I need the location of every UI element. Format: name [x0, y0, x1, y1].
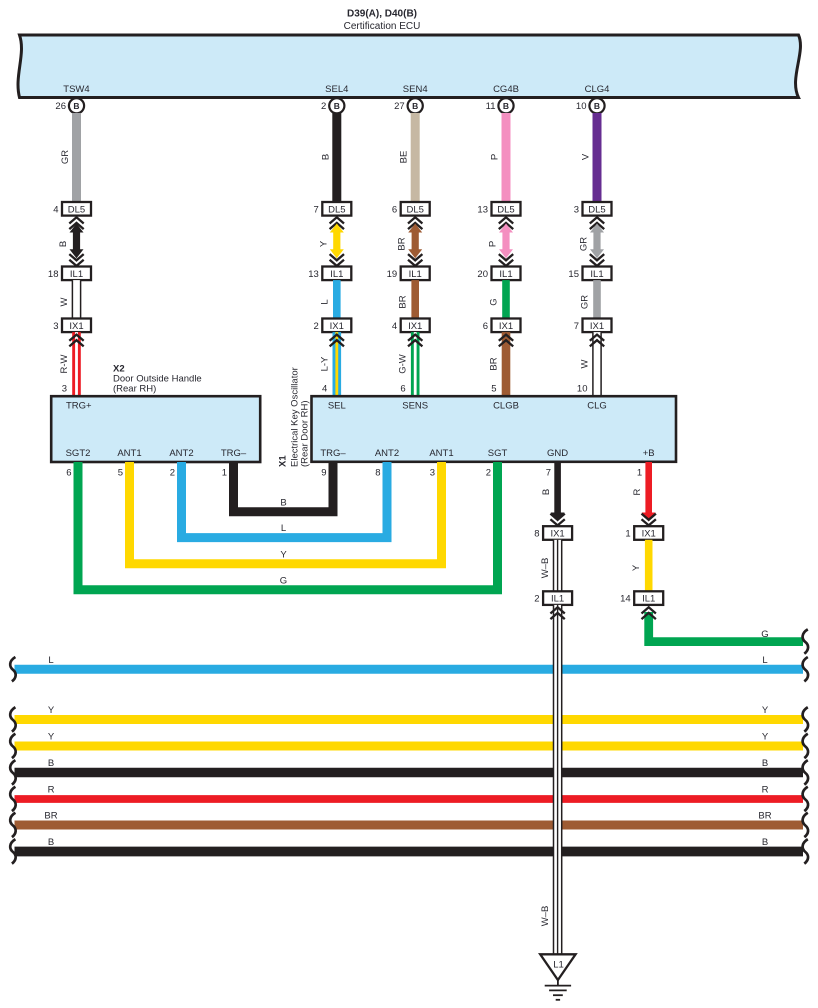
- connector DL5 pin 6: [401, 202, 430, 216]
- wire BR from IL1 to IX1: [411, 280, 419, 318]
- svg-text:IL1: IL1: [499, 269, 512, 280]
- wire GR from TSW4 to DL5: [72, 113, 81, 202]
- wire Y bus: [15, 715, 804, 724]
- svg-text:B: B: [73, 101, 79, 111]
- wire G from IL1 14 to right edge: [649, 612, 803, 642]
- svg-text:20: 20: [477, 269, 488, 280]
- connector IL1 pin 20: [492, 267, 521, 281]
- svg-text:2: 2: [170, 468, 175, 479]
- svg-text:26: 26: [55, 101, 66, 112]
- connector DL5 pin 7: [322, 202, 351, 216]
- connector DL5 pin 3: [583, 202, 612, 216]
- svg-text:1: 1: [637, 468, 642, 479]
- wire L loop from X2 to X1: [182, 462, 388, 538]
- svg-text:G: G: [280, 575, 287, 586]
- pin 10 (B) of ECU: [589, 98, 604, 113]
- svg-text:G: G: [489, 298, 500, 305]
- svg-text:CG4B: CG4B: [493, 84, 519, 95]
- svg-text:B: B: [594, 101, 600, 111]
- wire P from DL5 to IL1 (in-line connector arrows): [499, 217, 513, 223]
- svg-text:+B: +B: [643, 448, 655, 459]
- svg-text:GND: GND: [547, 448, 568, 459]
- wire B from X1 GND to IX1: [554, 462, 561, 513]
- svg-text:2: 2: [321, 101, 326, 112]
- wire L-Y from IX1 down to component pin 4: [333, 332, 342, 396]
- svg-text:1: 1: [222, 468, 227, 479]
- wire Y loop from X2 to X1: [130, 462, 442, 564]
- svg-text:B: B: [334, 101, 340, 111]
- svg-text:SENS: SENS: [402, 401, 428, 412]
- wire BR from DL5 to IL1 (in-line connector arrows): [408, 217, 422, 223]
- svg-text:B: B: [762, 837, 768, 848]
- svg-text:B: B: [762, 758, 768, 769]
- svg-text:L: L: [48, 655, 53, 666]
- svg-text:G-W: G-W: [398, 354, 409, 374]
- wire B from SEL4 to DL5: [332, 113, 341, 202]
- svg-text:3: 3: [53, 321, 58, 332]
- pin 2 (B) of ECU: [329, 98, 344, 113]
- svg-text:1: 1: [625, 529, 630, 540]
- svg-text:TSW4: TSW4: [63, 84, 89, 95]
- svg-text:2: 2: [534, 594, 539, 605]
- component X1 Electrical Key Oscillator (Rear Door RH): [312, 396, 677, 462]
- svg-text:Y: Y: [48, 705, 55, 716]
- pin 26 (B) of ECU: [69, 98, 84, 113]
- wire BE from SEN4 to DL5: [411, 113, 420, 202]
- svg-text:CLG4: CLG4: [585, 84, 610, 95]
- svg-text:GR: GR: [580, 295, 591, 309]
- svg-text:IL1: IL1: [330, 269, 343, 280]
- svg-text:SEL4: SEL4: [325, 84, 348, 95]
- svg-text:R-W: R-W: [59, 354, 70, 373]
- svg-text:11: 11: [486, 101, 496, 112]
- wire W-B from IX1 to IL1: [554, 540, 562, 592]
- svg-text:Y: Y: [631, 564, 642, 571]
- wire L bus: [15, 665, 804, 674]
- svg-text:2: 2: [486, 468, 491, 479]
- svg-text:IX1: IX1: [642, 529, 656, 540]
- connector IX1 pin 2: [322, 319, 351, 333]
- svg-text:6: 6: [66, 468, 71, 479]
- svg-text:BR: BR: [397, 237, 408, 250]
- svg-text:V: V: [581, 153, 592, 160]
- wire B bus: [15, 847, 804, 857]
- svg-text:B: B: [541, 489, 552, 495]
- svg-text:3: 3: [574, 204, 579, 215]
- wire R bus: [15, 795, 804, 803]
- svg-text:GR: GR: [579, 237, 590, 251]
- svg-text:2: 2: [314, 321, 319, 332]
- svg-text:B: B: [48, 837, 54, 848]
- wire B from DL5 to IL1 (in-line connector arrows): [69, 217, 83, 223]
- svg-text:DL5: DL5: [406, 204, 423, 215]
- svg-text:Y: Y: [48, 732, 55, 743]
- svg-text:13: 13: [477, 204, 488, 215]
- svg-text:SGT: SGT: [488, 448, 508, 459]
- svg-text:R: R: [48, 785, 55, 796]
- svg-text:B: B: [320, 154, 331, 160]
- svg-text:BR: BR: [398, 295, 409, 308]
- svg-text:B: B: [58, 241, 69, 247]
- connector IX1 pin 6: [492, 319, 521, 333]
- svg-text:3: 3: [430, 468, 435, 479]
- svg-text:ANT2: ANT2: [169, 448, 193, 459]
- connector IL1 pin 13: [322, 267, 351, 281]
- svg-text:7: 7: [546, 468, 551, 479]
- svg-text:(Rear RH): (Rear RH): [113, 384, 156, 395]
- svg-text:27: 27: [394, 101, 405, 112]
- svg-text:IX1: IX1: [330, 321, 344, 332]
- wire P from CG4B to DL5: [502, 113, 511, 202]
- svg-text:DL5: DL5: [328, 204, 345, 215]
- svg-text:5: 5: [118, 468, 123, 479]
- svg-text:3: 3: [62, 384, 67, 395]
- wire GR from DL5 to IL1 (in-line connector arrows): [590, 217, 604, 223]
- svg-text:ANT1: ANT1: [429, 448, 453, 459]
- wire B bus: [15, 768, 804, 777]
- svg-text:8: 8: [534, 529, 539, 540]
- connector IX1 pin 1: [634, 526, 663, 540]
- wire R from X1 +B to IX1: [645, 462, 652, 513]
- svg-text:(Rear Door RH): (Rear Door RH): [300, 400, 311, 467]
- wire W-B from IL1 2 down to ground L1: [554, 605, 562, 954]
- wire G loop from X2 to X1: [78, 462, 498, 590]
- svg-text:L1: L1: [553, 960, 564, 971]
- svg-text:14: 14: [620, 594, 631, 605]
- connector IX1 pin 7: [583, 319, 612, 333]
- svg-text:10: 10: [576, 101, 587, 112]
- svg-text:DL5: DL5: [497, 204, 514, 215]
- svg-text:SEL: SEL: [328, 401, 346, 412]
- svg-text:CLG: CLG: [587, 401, 607, 412]
- svg-text:IL1: IL1: [70, 269, 83, 280]
- svg-text:B: B: [412, 101, 418, 111]
- wire R-W from IX1 down to component pin 3: [72, 332, 81, 396]
- svg-text:7: 7: [574, 321, 579, 332]
- connector IX1 pin 4: [401, 319, 430, 333]
- svg-text:18: 18: [48, 269, 59, 280]
- svg-text:G: G: [761, 629, 768, 640]
- wire G-W from IX1 down to component pin 6: [411, 332, 420, 396]
- connector IL1 pin 18: [62, 267, 91, 281]
- svg-text:TRG–: TRG–: [221, 448, 247, 459]
- svg-text:L: L: [762, 655, 767, 666]
- svg-text:19: 19: [387, 269, 398, 280]
- connector IX1 pin 3: [62, 319, 91, 333]
- wire Y from DL5 to IL1 (in-line connector arrows): [330, 217, 344, 223]
- pin 11 (B) of ECU: [498, 98, 513, 113]
- svg-text:P: P: [490, 154, 501, 160]
- svg-text:L-Y: L-Y: [319, 356, 330, 371]
- svg-text:DL5: DL5: [68, 204, 85, 215]
- wire L from IL1 to IX1: [333, 280, 341, 318]
- svg-text:X1: X1: [278, 455, 289, 467]
- svg-text:B: B: [48, 758, 54, 769]
- svg-text:L: L: [319, 299, 330, 304]
- svg-text:Y: Y: [280, 549, 287, 560]
- svg-text:7: 7: [314, 204, 319, 215]
- wire GR from IL1 to IX1: [593, 280, 601, 318]
- svg-text:5: 5: [491, 384, 496, 395]
- svg-text:4: 4: [392, 321, 397, 332]
- svg-text:Certification ECU: Certification ECU: [344, 21, 421, 32]
- svg-text:13: 13: [308, 269, 319, 280]
- component X2 Door Outside Handle (Rear RH): [51, 396, 260, 462]
- svg-text:15: 15: [568, 269, 579, 280]
- svg-text:B: B: [503, 101, 509, 111]
- svg-text:W–B: W–B: [540, 558, 551, 579]
- svg-text:IX1: IX1: [590, 321, 604, 332]
- svg-text:D39(A), D40(B): D39(A), D40(B): [347, 9, 417, 20]
- svg-text:P: P: [488, 241, 499, 247]
- svg-text:Y: Y: [762, 705, 769, 716]
- svg-text:W: W: [59, 297, 70, 306]
- svg-text:TRG–: TRG–: [320, 448, 346, 459]
- svg-text:R: R: [632, 488, 643, 495]
- wire Y from IX1 to IL1: [645, 540, 653, 592]
- svg-text:IL1: IL1: [409, 269, 422, 280]
- svg-text:IX1: IX1: [550, 529, 564, 540]
- wire V from CLG4 to DL5: [593, 113, 602, 202]
- wire B loop from X2 to X1: [234, 462, 334, 512]
- svg-text:BE: BE: [399, 151, 410, 164]
- svg-text:IL1: IL1: [642, 594, 655, 605]
- svg-text:10: 10: [577, 384, 588, 395]
- wire Y bus: [15, 742, 804, 751]
- svg-text:SEN4: SEN4: [403, 84, 428, 95]
- svg-text:TRG+: TRG+: [66, 401, 92, 412]
- svg-text:B: B: [280, 497, 286, 508]
- svg-text:IX1: IX1: [69, 321, 83, 332]
- svg-text:DL5: DL5: [588, 204, 605, 215]
- svg-text:IX1: IX1: [408, 321, 422, 332]
- svg-text:W–B: W–B: [540, 906, 551, 927]
- svg-text:GR: GR: [60, 150, 71, 164]
- connector IL1 pin 19: [401, 267, 430, 281]
- connector IL1 pin 15: [583, 267, 612, 281]
- svg-text:4: 4: [53, 204, 58, 215]
- ground L1: [540, 954, 575, 980]
- connector IL1 pin 2: [543, 591, 572, 605]
- svg-text:BR: BR: [758, 811, 771, 822]
- svg-text:BR: BR: [489, 357, 500, 370]
- wire BR from IX1 down to component pin 5: [502, 332, 511, 396]
- svg-text:Y: Y: [762, 732, 769, 743]
- svg-text:IL1: IL1: [551, 594, 564, 605]
- connector DL5 pin 4: [62, 202, 91, 216]
- svg-text:IL1: IL1: [590, 269, 603, 280]
- svg-text:L: L: [281, 523, 286, 534]
- wire BR bus: [15, 821, 804, 830]
- svg-text:6: 6: [392, 204, 397, 215]
- svg-text:W: W: [580, 359, 591, 368]
- wire W from IL1 to IX1: [72, 280, 80, 318]
- svg-text:CLGB: CLGB: [493, 401, 519, 412]
- svg-text:6: 6: [400, 384, 405, 395]
- connector IL1 pin 14: [634, 591, 663, 605]
- connector DL5 pin 13: [492, 202, 521, 216]
- connector IX1 pin 8: [543, 526, 572, 540]
- ECU D39(A)/D40(B) band: [18, 35, 800, 98]
- svg-text:R: R: [762, 785, 769, 796]
- svg-text:8: 8: [375, 468, 380, 479]
- wire W from IX1 down to component pin 10: [593, 332, 601, 396]
- wire G from IL1 to IX1: [502, 280, 510, 318]
- svg-text:IX1: IX1: [499, 321, 513, 332]
- svg-text:SGT2: SGT2: [66, 448, 91, 459]
- svg-text:ANT2: ANT2: [375, 448, 399, 459]
- svg-text:BR: BR: [44, 811, 57, 822]
- svg-text:4: 4: [322, 384, 327, 395]
- svg-text:Y: Y: [318, 240, 329, 247]
- pin 27 (B) of ECU: [408, 98, 423, 113]
- svg-text:9: 9: [321, 468, 326, 479]
- svg-text:ANT1: ANT1: [117, 448, 141, 459]
- svg-text:6: 6: [483, 321, 488, 332]
